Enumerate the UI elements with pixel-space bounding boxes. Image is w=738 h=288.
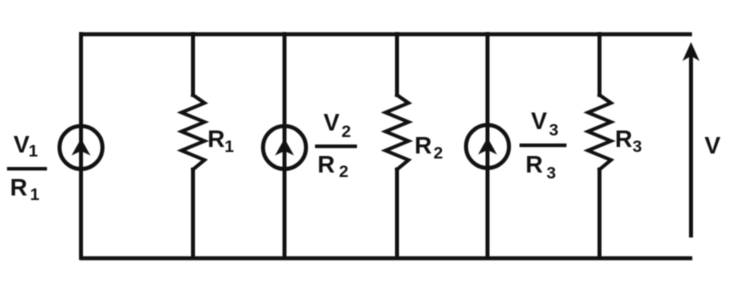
svg-text:R: R (318, 152, 335, 179)
svg-text:V: V (14, 132, 30, 159)
svg-text:1: 1 (29, 142, 38, 161)
svg-text:V: V (531, 108, 547, 135)
svg-text:R: R (415, 133, 432, 160)
svg-text:2: 2 (339, 162, 348, 181)
svg-text:R: R (10, 175, 27, 202)
svg-text:R: R (526, 152, 543, 179)
svg-text:3: 3 (547, 164, 556, 183)
svg-text:1: 1 (30, 185, 39, 204)
svg-text:1: 1 (225, 137, 234, 156)
svg-text:R: R (208, 126, 225, 153)
svg-text:3: 3 (633, 137, 642, 156)
svg-text:2: 2 (434, 144, 443, 163)
svg-text:V: V (705, 133, 721, 160)
svg-text:3: 3 (549, 121, 558, 140)
svg-text:2: 2 (342, 122, 351, 141)
svg-text:R: R (615, 126, 632, 153)
svg-text:V: V (324, 110, 340, 137)
